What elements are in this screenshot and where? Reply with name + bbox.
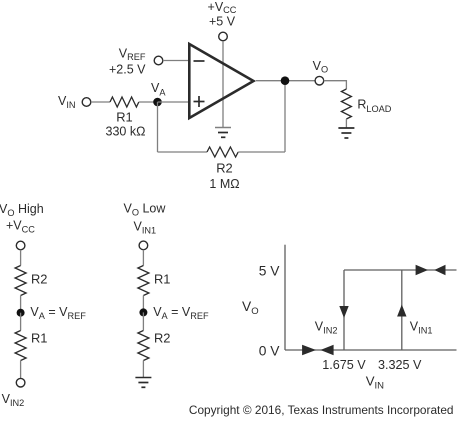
trace high level 5V xyxy=(344,269,457,271)
wire RLOAD to ground xyxy=(345,119,347,128)
divider A top terminal circle xyxy=(16,241,25,250)
svg-text:1.675 V: 1.675 V xyxy=(322,358,366,372)
resistor R2 zigzag xyxy=(207,147,238,157)
svg-text:VIN1: VIN1 xyxy=(134,220,157,236)
svg-text:R2: R2 xyxy=(31,271,47,286)
divider B resistor R2 zigzag xyxy=(138,331,149,361)
divider B wire node to R2 xyxy=(142,312,144,330)
svg-text:R1: R1 xyxy=(116,110,132,125)
svg-text:+VCC: +VCC xyxy=(208,0,237,15)
wire feedback row to R2 xyxy=(158,151,208,153)
arrow right on 0V trace xyxy=(302,345,316,355)
op-amp non-inverting input marker xyxy=(194,96,205,107)
transition VIN2 vertical xyxy=(343,270,345,350)
arrow right on 5V trace xyxy=(416,265,428,275)
svg-text:5 V: 5 V xyxy=(259,263,281,278)
resistor RLOAD zigzag xyxy=(341,89,351,119)
wire VIN to R1 xyxy=(91,101,110,103)
divider B wire R2 to ground xyxy=(142,361,144,378)
divider A wire node to R1 xyxy=(20,313,22,331)
divider B node VA dot xyxy=(139,308,147,316)
svg-text:330 kΩ: 330 kΩ xyxy=(106,125,146,139)
svg-text:VREF: VREF xyxy=(119,47,146,62)
divider A resistor R2 zigzag xyxy=(15,266,26,296)
svg-text:VIN: VIN xyxy=(58,94,76,110)
resistor R1 zigzag xyxy=(110,97,139,107)
svg-text:R1: R1 xyxy=(31,331,47,346)
divider A wire R1 to bottom terminal xyxy=(20,361,22,379)
svg-text:VA = VREF: VA = VREF xyxy=(153,305,209,321)
graph x-axis xyxy=(285,349,457,351)
SECTION:TOP xyxy=(0,202,209,409)
wire +VCC down through op-amp to ground xyxy=(222,41,224,128)
divider A node VA dot xyxy=(17,309,25,317)
op-amp ground symbol xyxy=(215,128,231,138)
svg-text:VO High: VO High xyxy=(0,202,44,218)
arrow up on VIN1 transition xyxy=(397,305,406,317)
node A junction dot xyxy=(153,98,162,107)
arrow left on 0V trace xyxy=(320,345,333,355)
svg-text:+2.5 V: +2.5 V xyxy=(109,62,146,76)
wire R1 to node A xyxy=(139,101,158,103)
svg-text:+VCC: +VCC xyxy=(6,219,35,235)
wire VO to RLOAD xyxy=(324,81,347,89)
RLOAD ground symbol xyxy=(338,128,354,138)
divider A resistor R1 zigzag xyxy=(15,331,26,361)
divider B ground symbol xyxy=(135,378,151,388)
wire node A to non-inverting input xyxy=(158,101,189,103)
divider A bottom terminal circle xyxy=(16,378,25,387)
SECTION:DIVIDERS xyxy=(242,245,457,392)
wire op-amp output to junction xyxy=(256,80,315,82)
wire R2 to output branch xyxy=(238,151,285,153)
svg-text:VA = VREF: VA = VREF xyxy=(30,305,86,321)
svg-text:Copyright © 2016, Texas Instru: Copyright © 2016, Texas Instruments Inco… xyxy=(189,403,454,417)
op-amp inverting input marker xyxy=(194,60,205,62)
svg-text:VIN1: VIN1 xyxy=(410,319,433,335)
divider B resistor R1 zigzag xyxy=(138,266,149,296)
divider A wire R2 to node xyxy=(20,296,22,313)
svg-text:R2: R2 xyxy=(154,331,170,346)
divider B wire R1 to node xyxy=(142,296,144,313)
svg-text:VIN2: VIN2 xyxy=(315,319,338,335)
+VCC terminal circle xyxy=(219,32,228,41)
arrow down on VIN2 transition xyxy=(339,306,348,318)
svg-text:VO: VO xyxy=(313,59,329,74)
output junction dot xyxy=(281,76,290,85)
svg-text:VO: VO xyxy=(242,299,259,317)
VREF terminal circle xyxy=(154,56,163,65)
wire feedback up to output node xyxy=(284,81,286,152)
svg-text:3.325 V: 3.325 V xyxy=(378,358,422,372)
svg-text:VIN2: VIN2 xyxy=(2,392,25,408)
graph y-axis xyxy=(284,245,286,350)
op-amp U1 triangle xyxy=(189,44,253,118)
VIN terminal circle xyxy=(82,98,91,107)
svg-text:VA: VA xyxy=(151,81,166,97)
divider A wire terminal to R2 xyxy=(20,250,22,266)
wire VREF to inverting input xyxy=(163,60,188,62)
divider B top terminal circle xyxy=(139,241,148,250)
divider B wire terminal to R1 xyxy=(142,250,144,266)
transition VIN1 vertical xyxy=(401,270,403,350)
wire node A down to feedback row xyxy=(157,102,159,152)
svg-text:R1: R1 xyxy=(154,271,170,286)
svg-text:0 V: 0 V xyxy=(259,343,281,358)
svg-text:1 MΩ: 1 MΩ xyxy=(209,177,239,191)
svg-text:RLOAD: RLOAD xyxy=(357,97,391,114)
svg-text:R2: R2 xyxy=(216,161,232,176)
arrow left on 5V trace xyxy=(434,265,445,275)
svg-text:+5 V: +5 V xyxy=(209,14,236,28)
svg-text:VIN: VIN xyxy=(366,373,384,391)
svg-text:VO Low: VO Low xyxy=(124,202,167,218)
VO terminal circle xyxy=(315,76,324,85)
